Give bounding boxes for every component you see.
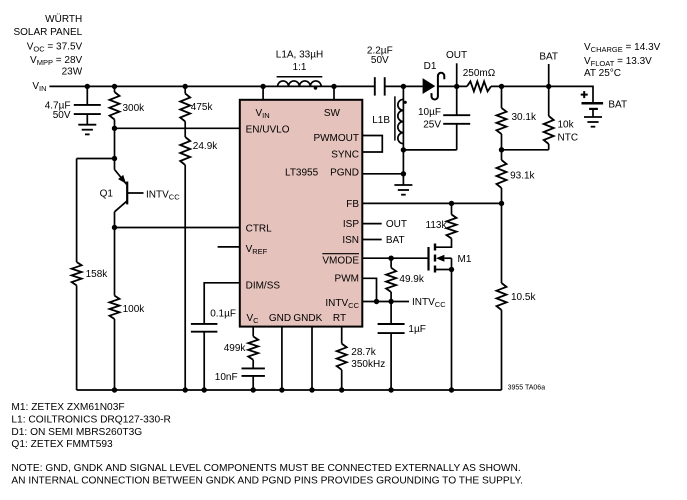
svg-text:GNDK: GNDK — [293, 313, 322, 324]
svg-text:475k: 475k — [191, 102, 214, 113]
svg-text:GND: GND — [269, 313, 291, 324]
svg-text:1µF: 1µF — [408, 324, 425, 335]
svg-text:23W: 23W — [62, 67, 83, 78]
svg-text:PGND: PGND — [330, 168, 359, 179]
svg-text:VMODE: VMODE — [322, 255, 359, 266]
svg-text:PWMOUT: PWMOUT — [313, 133, 359, 144]
svg-text:300k: 300k — [123, 103, 146, 114]
svg-text:VIN: VIN — [32, 81, 46, 93]
svg-text:M1: M1 — [458, 254, 472, 265]
svg-text:NOTE: GND, GNDK AND SIGNAL LEV: NOTE: GND, GNDK AND SIGNAL LEVEL COMPONE… — [11, 463, 520, 474]
svg-text:10.5k: 10.5k — [511, 292, 536, 303]
svg-text:RT: RT — [333, 313, 346, 324]
svg-text:3955 TA06a: 3955 TA06a — [508, 385, 546, 392]
svg-text:L1: COILTRONICS DRQ127-330-R: L1: COILTRONICS DRQ127-330-R — [11, 414, 170, 425]
svg-text:10k: 10k — [558, 120, 575, 131]
svg-text:AN INTERNAL CONNECTION BETWEEN: AN INTERNAL CONNECTION BETWEEN GNDK AND … — [11, 475, 523, 486]
svg-text:DIM/SS: DIM/SS — [246, 280, 281, 291]
svg-text:D1: ON SEMI MBRS260T3G: D1: ON SEMI MBRS260T3G — [11, 427, 142, 438]
svg-text:PWM: PWM — [335, 273, 359, 284]
svg-text:10nF: 10nF — [215, 372, 238, 383]
svg-text:INTVCC: INTVCC — [412, 297, 446, 309]
svg-text:113k: 113k — [426, 220, 448, 231]
svg-text:Q1: ZETEX FMMT593: Q1: ZETEX FMMT593 — [11, 439, 113, 450]
svg-text:SOLAR PANEL: SOLAR PANEL — [13, 27, 82, 38]
svg-text:EN/UVLO: EN/UVLO — [246, 124, 290, 135]
svg-text:OUT: OUT — [386, 219, 407, 230]
svg-text:FB: FB — [346, 199, 359, 210]
svg-text:BAT: BAT — [539, 52, 558, 63]
svg-text:BAT: BAT — [608, 100, 627, 111]
svg-text:NTC: NTC — [558, 133, 579, 144]
svg-text:30.1k: 30.1k — [512, 112, 537, 123]
svg-text:10µF: 10µF — [418, 107, 441, 118]
svg-text:CTRL: CTRL — [246, 223, 273, 234]
svg-text:LT3955: LT3955 — [285, 168, 319, 179]
svg-text:WÜRTH: WÜRTH — [45, 13, 82, 25]
svg-text:SW: SW — [324, 108, 341, 119]
svg-text:0.1µF: 0.1µF — [210, 309, 236, 320]
svg-text:93.1k: 93.1k — [510, 171, 535, 182]
svg-text:OUT: OUT — [446, 50, 467, 61]
svg-text:49.9k: 49.9k — [399, 274, 424, 285]
svg-text:VCHARGE = 14.3V: VCHARGE = 14.3V — [584, 42, 661, 54]
svg-text:250mΩ: 250mΩ — [463, 68, 496, 79]
svg-text:VMPP = 28V: VMPP = 28V — [30, 55, 82, 67]
svg-text:Q1: Q1 — [100, 189, 114, 200]
svg-text:100k: 100k — [123, 304, 146, 315]
svg-text:VFLOAT = 13.3V: VFLOAT = 13.3V — [584, 56, 652, 68]
svg-text:158k: 158k — [86, 269, 109, 280]
svg-text:350kHz: 350kHz — [351, 359, 385, 370]
svg-text:ISN: ISN — [342, 235, 359, 246]
svg-text:BAT: BAT — [386, 235, 405, 246]
svg-text:50V: 50V — [371, 55, 389, 66]
svg-text:AT 25°C: AT 25°C — [584, 68, 621, 79]
svg-text:M1: ZETEX ZXM61N03F: M1: ZETEX ZXM61N03F — [11, 402, 124, 413]
svg-text:1:1: 1:1 — [293, 62, 307, 73]
svg-text:50V: 50V — [53, 110, 71, 121]
svg-text:ISP: ISP — [343, 219, 359, 230]
svg-text:SYNC: SYNC — [331, 149, 359, 160]
svg-text:VOC = 37.5V: VOC = 37.5V — [27, 41, 83, 53]
svg-text:25V: 25V — [423, 119, 441, 130]
svg-text:INTVCC: INTVCC — [146, 190, 180, 202]
svg-text:24.9k: 24.9k — [193, 141, 218, 152]
svg-text:D1: D1 — [424, 61, 437, 72]
svg-text:L1A, 33µH: L1A, 33µH — [276, 49, 323, 60]
svg-text:28.7k: 28.7k — [351, 347, 376, 358]
svg-text:499k: 499k — [224, 343, 247, 354]
svg-text:L1B: L1B — [372, 115, 390, 126]
